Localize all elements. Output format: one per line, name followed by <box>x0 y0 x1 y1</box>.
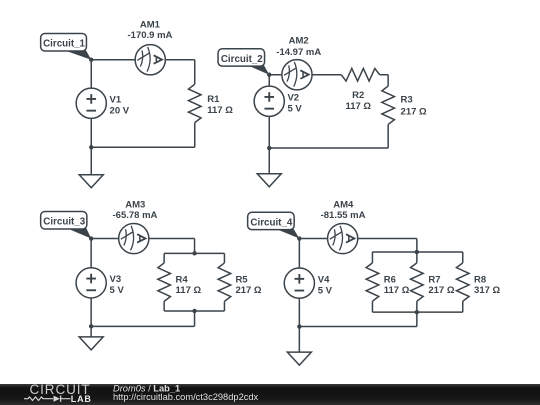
svg-text:217 Ω: 217 Ω <box>235 285 261 296</box>
svg-text:AM4: AM4 <box>333 200 354 211</box>
svg-text:V2: V2 <box>287 93 299 104</box>
svg-text:-81.55 mA: -81.55 mA <box>321 210 366 221</box>
svg-text:R5: R5 <box>235 274 248 285</box>
svg-text:317 Ω: 317 Ω <box>474 285 500 296</box>
svg-text:117 Ω: 117 Ω <box>384 285 410 296</box>
svg-text:117 Ω: 117 Ω <box>207 105 233 116</box>
svg-text:5 V: 5 V <box>110 285 125 296</box>
svg-text:http://circuitlab.com/ct3c298d: http://circuitlab.com/ct3c298dp2cdx <box>113 392 259 402</box>
svg-text:5 V: 5 V <box>287 104 302 115</box>
svg-text:Circuit_2: Circuit_2 <box>221 54 263 65</box>
svg-text:R7: R7 <box>428 274 440 285</box>
svg-text:R8: R8 <box>474 274 486 285</box>
svg-text:R1: R1 <box>207 94 220 105</box>
svg-text:R2: R2 <box>352 90 364 101</box>
svg-text:5 V: 5 V <box>318 285 333 296</box>
svg-text:V4: V4 <box>318 274 330 285</box>
svg-text:117 Ω: 117 Ω <box>345 101 371 112</box>
svg-text:-14.97 mA: -14.97 mA <box>276 47 321 58</box>
svg-text:117 Ω: 117 Ω <box>176 285 202 296</box>
svg-text:R3: R3 <box>401 94 413 105</box>
svg-text:-65.78 mA: -65.78 mA <box>113 210 158 221</box>
svg-text:-170.9 mA: -170.9 mA <box>128 30 173 41</box>
svg-text:R6: R6 <box>384 274 396 285</box>
svg-text:V3: V3 <box>110 274 122 285</box>
svg-text:AM1: AM1 <box>140 19 161 30</box>
svg-text:AM3: AM3 <box>125 200 145 211</box>
svg-text:LAB: LAB <box>71 394 92 404</box>
svg-text:20 V: 20 V <box>110 106 130 117</box>
svg-text:V1: V1 <box>110 95 122 106</box>
svg-text:217 Ω: 217 Ω <box>428 285 454 296</box>
svg-text:Circuit_3: Circuit_3 <box>43 217 85 228</box>
svg-text:AM2: AM2 <box>289 36 309 47</box>
svg-text:Circuit_1: Circuit_1 <box>43 39 85 50</box>
svg-text:R4: R4 <box>176 274 189 285</box>
svg-text:Circuit_4: Circuit_4 <box>250 217 292 228</box>
svg-text:217 Ω: 217 Ω <box>401 106 427 117</box>
